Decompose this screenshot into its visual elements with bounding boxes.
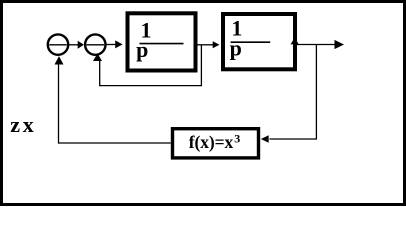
svg-text:p: p	[230, 35, 242, 60]
svg-text:p: p	[136, 37, 148, 62]
svg-text:3: 3	[234, 132, 240, 146]
svg-text:z x: z x	[10, 112, 33, 137]
svg-text:f(x)=x: f(x)=x	[189, 132, 234, 152]
